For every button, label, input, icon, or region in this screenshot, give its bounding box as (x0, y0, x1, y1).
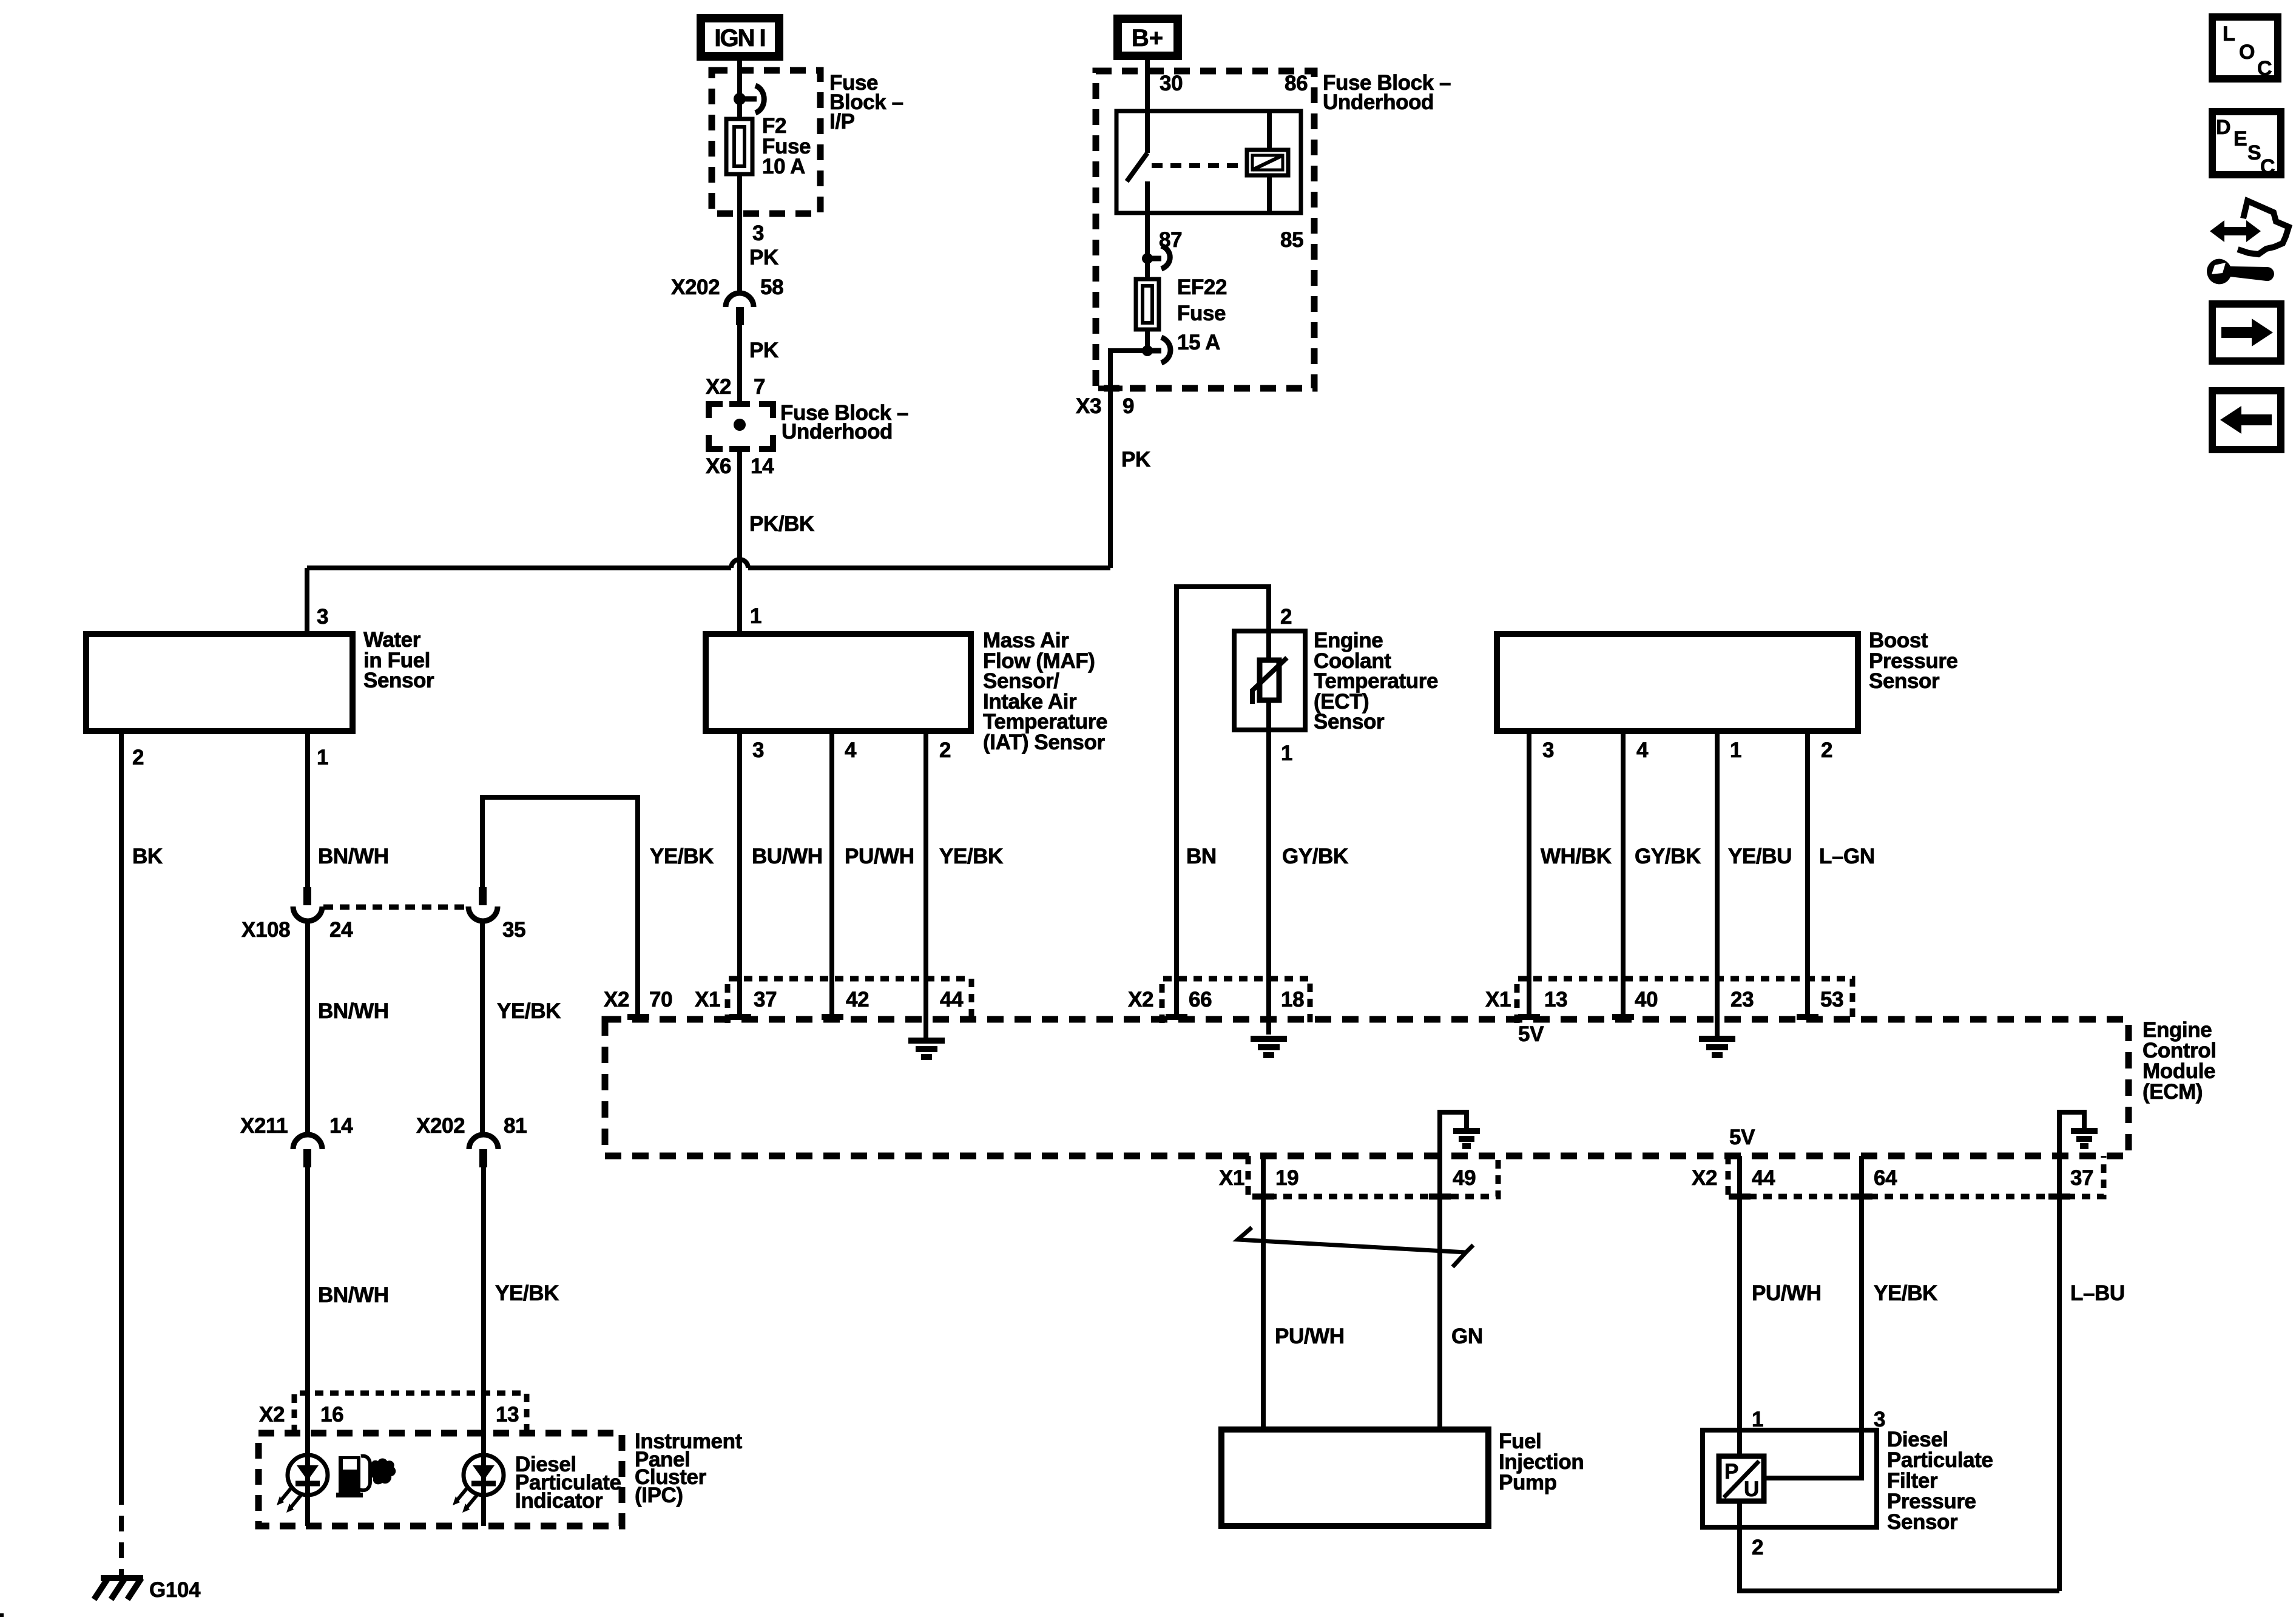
svg-text:P: P (1724, 1460, 1738, 1484)
svg-text:3: 3 (317, 605, 328, 629)
svg-text:BN: BN (1186, 845, 1217, 868)
wire MAF pin 4 PU/WH to ECM X1-42 (829, 731, 834, 1017)
indicator lamp water-in-fuel (288, 1455, 328, 1495)
svg-text:86: 86 (1285, 72, 1308, 95)
svg-text:Sensor: Sensor (1869, 669, 1940, 693)
MAF/IAT sensor box (706, 634, 971, 731)
svg-text:37: 37 (754, 988, 777, 1011)
svg-text:U: U (1744, 1477, 1759, 1501)
relay switch arm (1127, 153, 1147, 181)
wire WIF pin 2 BK down (119, 731, 124, 1489)
svg-text:3: 3 (1542, 738, 1554, 762)
pin terminal bar 66 (1166, 1014, 1187, 1020)
svg-text:24: 24 (329, 918, 353, 942)
wire X6-14 down to MAF pin 1, PK/BK (737, 449, 742, 634)
svg-text:40: 40 (1635, 988, 1658, 1011)
svg-text:Underhood: Underhood (1323, 90, 1434, 114)
svg-text:4: 4 (1636, 738, 1649, 762)
svg-text:1: 1 (750, 604, 761, 628)
wire WIF pin 1 BN/WH to X108-24 (305, 731, 310, 887)
svg-text:GN: GN (1451, 1325, 1483, 1348)
page artifact dot (0, 1613, 4, 1617)
svg-text:37: 37 (2070, 1166, 2093, 1190)
wire ECM X2-66 BN feed to ECT pin 2 (1177, 587, 1269, 1017)
wire ECM X2-37 L-BU to DPF sensor pin 2 with internal ground (2059, 1112, 2084, 1591)
svg-text:BN/WH: BN/WH (318, 999, 389, 1023)
svg-text:(IPC): (IPC) (635, 1484, 683, 1507)
svg-text:Sensor: Sensor (1314, 710, 1385, 734)
connector X1 of ECM bottom (pins 19,49) (1248, 1156, 1498, 1197)
svg-text:Sensor: Sensor (1887, 1510, 1958, 1534)
svg-text:1: 1 (1281, 741, 1292, 765)
connector X2 of ECM bottom (pins 44,64,37) (1728, 1156, 2104, 1197)
svg-text:YE/BU: YE/BU (1728, 845, 1792, 868)
svg-text:13: 13 (496, 1403, 519, 1426)
svg-text:44: 44 (1752, 1166, 1775, 1190)
svg-text:9: 9 (1123, 394, 1134, 418)
wire boost pin 1 YE/BU to ECM X1-23 ground (1715, 731, 1720, 1038)
pressure transducer P/U symbol (1719, 1456, 1764, 1501)
ground inside ECM below pin 44 (908, 1041, 945, 1057)
wire ECM X1-19 PU/WH to fuel injection pump (1261, 1156, 1266, 1430)
fuel pump icon (336, 1456, 363, 1497)
svg-text:1: 1 (317, 746, 328, 769)
wire relay pin 87 to fuse EF22 (1145, 181, 1150, 279)
svg-text:Fuse: Fuse (1177, 302, 1226, 325)
thermistor symbol in ECT (1266, 631, 1271, 660)
twisted pair marker across pump wires (1238, 1227, 1473, 1267)
svg-text:42: 42 (846, 988, 869, 1011)
svg-text:PU/WH: PU/WH (845, 845, 914, 868)
relay actuation dashed line (1152, 163, 1246, 168)
connector X2 of IPC (pins 16, 13) (294, 1393, 527, 1433)
icon LOC box (2212, 17, 2278, 79)
indicator lamp diesel particulate (464, 1455, 504, 1495)
svg-text:18: 18 (1281, 988, 1304, 1011)
node EF22 top junction (1142, 253, 1153, 264)
svg-text:Indicator: Indicator (515, 1489, 603, 1513)
svg-text:D: D (2216, 116, 2231, 139)
svg-text:X202: X202 (416, 1114, 465, 1138)
svg-text:85: 85 (1280, 228, 1303, 252)
svg-text:X2: X2 (1692, 1166, 1717, 1190)
IPC dashed box (258, 1433, 622, 1526)
svg-text:PK: PK (1121, 448, 1150, 471)
wire MAF pin 2 YE/BK to ECM X1-44 ground (923, 731, 928, 1038)
wire connector 35 up and over to ECM X2-70, YE/BK (482, 797, 638, 1017)
wire X211 down to IPC X2-16, BN/WH (305, 1167, 310, 1526)
wire boost pin 2 L-GN to ECM X1-53 (1805, 731, 1810, 1017)
svg-text:PU/WH: PU/WH (1275, 1325, 1345, 1348)
fuse F2 10A body (726, 119, 752, 174)
svg-text:YE/BK: YE/BK (1874, 1281, 1937, 1305)
wire X108-24 down to X211-14, BN/WH (305, 920, 310, 1136)
wire X202-81 down to IPC X2-13, YE/BK (481, 1167, 486, 1526)
svg-text:23: 23 (1730, 988, 1754, 1011)
wire to X3 pin 9 and down to rail, PK (1110, 351, 1147, 568)
wire boost pin 3 WH/BK to ECM X1-13 (1527, 731, 1531, 1017)
svg-text:(ECM): (ECM) (2142, 1080, 2203, 1104)
svg-text:BK: BK (132, 845, 163, 868)
fuse clip top of F2 (745, 86, 764, 113)
svg-text:I/P: I/P (829, 110, 855, 133)
svg-text:(IAT) Sensor: (IAT) Sensor (983, 731, 1105, 754)
svg-text:L–GN: L–GN (1819, 845, 1875, 868)
svg-text:BN/WH: BN/WH (318, 1283, 389, 1307)
svg-text:44: 44 (940, 988, 964, 1011)
connector X1 of ECM (pins 37,42,44) (728, 979, 971, 1023)
svg-text:YE/BK: YE/BK (650, 845, 714, 868)
svg-text:5V: 5V (1518, 1022, 1544, 1046)
svg-text:X1: X1 (1219, 1166, 1244, 1190)
ground inside ECM below pin 18 (1251, 1039, 1287, 1055)
wire EF22 bottom to X3-9 branch (1145, 329, 1150, 351)
svg-text:35: 35 (502, 918, 525, 942)
connector X2 of ECM (pins 66,18) (1162, 979, 1310, 1023)
svg-text:15 A: 15 A (1177, 331, 1220, 354)
svg-text:YE/BK: YE/BK (497, 999, 561, 1023)
svg-text:E: E (2234, 127, 2247, 150)
svg-text:X108: X108 (241, 918, 290, 942)
svg-text:PK: PK (749, 246, 778, 269)
wire IGN I to fuse F2 (737, 59, 742, 119)
svg-text:GY/BK: GY/BK (1635, 845, 1701, 868)
svg-text:7: 7 (754, 375, 765, 399)
svg-text:C: C (2257, 57, 2272, 80)
svg-text:B+: B+ (1132, 25, 1163, 52)
svg-text:X2: X2 (706, 375, 731, 399)
water in fuel sensor box (86, 634, 353, 731)
wire X202-81 down from connector 35 (480, 920, 485, 1136)
wire BK hidden section (dashed) (119, 1489, 124, 1576)
wire ECM X2-44 PU/WH to DPF sensor pin 1 (1737, 1156, 1742, 1456)
svg-text:PK/BK: PK/BK (749, 512, 814, 536)
relay coil (1247, 150, 1288, 175)
icon wiring repair (arrow + outline + wrench) (2221, 227, 2250, 235)
svg-text:O: O (2239, 41, 2255, 64)
wire B+ to relay pin 30 (1145, 56, 1150, 153)
svg-text:3: 3 (752, 738, 764, 762)
svg-text:19: 19 (1275, 1166, 1298, 1190)
fuse block underhood pass-through box (corner marks) (709, 404, 773, 449)
svg-text:14: 14 (751, 454, 774, 478)
ECT sensor box (1234, 631, 1305, 730)
svg-text:YE/BK: YE/BK (939, 845, 1003, 868)
svg-text:X202: X202 (671, 275, 720, 299)
svg-text:X2: X2 (604, 988, 629, 1011)
svg-text:70: 70 (649, 988, 672, 1011)
svg-text:IGN I: IGN I (714, 25, 765, 52)
diesel particulate filter pressure sensor box (1703, 1430, 1877, 1527)
svg-text:X1: X1 (1485, 988, 1511, 1011)
svg-text:BU/WH: BU/WH (752, 845, 823, 868)
svg-text:EF22: EF22 (1177, 275, 1227, 299)
wire relay coil to pins 86/85 (1267, 111, 1272, 150)
svg-text:WH/BK: WH/BK (1541, 845, 1612, 868)
wire MAF pin 3 BU/WH to ECM X1-37 (737, 731, 742, 1017)
svg-text:14: 14 (329, 1114, 353, 1138)
svg-text:2: 2 (1280, 605, 1292, 629)
wire DPF pin 2 to ECM X2-37 (1740, 1501, 2059, 1591)
svg-text:2: 2 (939, 738, 951, 762)
svg-text:2: 2 (132, 746, 144, 769)
pin terminal bars 13 40 53 (1518, 1014, 1540, 1020)
icon back arrow box (2212, 391, 2281, 450)
svg-text:Sensor: Sensor (363, 669, 434, 692)
wire ECT pin 1 GY/BK to ECM X2-18 (1266, 700, 1271, 1035)
wire rail drop to WIF pin 3 (305, 568, 309, 634)
svg-text:X2: X2 (1128, 988, 1153, 1011)
wire X202 to X2-7, PK (737, 325, 742, 404)
svg-text:X6: X6 (706, 454, 731, 478)
connector X108 body dashed link (323, 905, 467, 910)
icon forward arrow box (2212, 304, 2281, 361)
svg-text:G104: G104 (149, 1578, 201, 1602)
svg-text:X2: X2 (259, 1403, 285, 1426)
fuse block underhood dashed box (1096, 71, 1314, 388)
power feed box IGN I (701, 18, 779, 56)
engine control module dashed box (605, 1019, 2129, 1156)
relay box (1116, 111, 1301, 213)
svg-text:5V: 5V (1729, 1126, 1755, 1149)
svg-text:PK: PK (749, 339, 778, 362)
ground inside ECM at pin 37 (2071, 1131, 2098, 1146)
pin terminal bars 37 42 (729, 1014, 751, 1020)
svg-text:64: 64 (1874, 1166, 1897, 1190)
node EF22 bottom junction (1142, 345, 1153, 356)
svg-text:X3: X3 (1076, 394, 1101, 418)
inline connector X108 pin 35 (479, 887, 487, 905)
svg-text:Pump: Pump (1499, 1471, 1557, 1494)
fuel injection pump box (1221, 1430, 1488, 1526)
svg-text:4: 4 (845, 738, 857, 762)
svg-text:53: 53 (1820, 988, 1843, 1011)
svg-text:49: 49 (1453, 1166, 1476, 1190)
svg-text:L–BU: L–BU (2070, 1281, 2125, 1305)
node fuse F2 top junction (734, 93, 746, 105)
svg-text:BN/WH: BN/WH (318, 845, 389, 868)
fuse clip bottom of EF22 (1152, 337, 1170, 363)
wire ECM X2-64 YE/BK to DPF sensor pin 3 (1764, 1156, 1862, 1478)
wire hop over IGN wire (731, 559, 748, 568)
power feed box B+ (1118, 19, 1178, 56)
fuse block I/P dashed box (712, 70, 820, 214)
svg-text:PU/WH: PU/WH (1752, 1281, 1822, 1305)
svg-text:S: S (2247, 141, 2261, 164)
boost pressure sensor box (1497, 634, 1858, 731)
svg-text:81: 81 (504, 1114, 527, 1138)
svg-text:13: 13 (1544, 988, 1567, 1011)
ground inside ECM below pin 23 (1699, 1039, 1735, 1055)
icon DESC box (2212, 112, 2281, 175)
fuse EF22 15A body (1136, 279, 1159, 329)
svg-text:2: 2 (1821, 738, 1832, 762)
wire boost pin 4 GY/BK to ECM X1-40 (1621, 731, 1626, 1017)
svg-text:3: 3 (752, 221, 764, 245)
svg-text:1: 1 (1730, 738, 1741, 762)
wire ECM X1-49 GN to fuel injection pump with internal ground (1440, 1112, 1467, 1430)
svg-text:C: C (2260, 155, 2275, 178)
svg-text:GY/BK: GY/BK (1282, 845, 1348, 868)
connector X1 of ECM (pins 13,40,23,53) (1517, 979, 1852, 1023)
wire F2 to X202 connector, pin 3, PK (737, 174, 742, 294)
svg-text:L: L (2223, 22, 2235, 46)
wire horizontal supply rail WIF to B+ branch (307, 565, 731, 570)
svg-text:16: 16 (320, 1403, 343, 1426)
ground G104 (94, 1578, 143, 1599)
svg-text:X1: X1 (695, 988, 720, 1011)
node junction dot in fuse block underhood (734, 419, 746, 431)
svg-text:2: 2 (1752, 1536, 1763, 1559)
svg-text:58: 58 (760, 275, 783, 299)
fuse clip top of EF22 (1152, 246, 1170, 269)
inline connector X108 pin 24 (303, 887, 311, 905)
svg-text:30: 30 (1160, 72, 1183, 95)
ground inside ECM at pin 49 (1453, 1131, 1480, 1146)
svg-text:Underhood: Underhood (782, 420, 893, 444)
svg-text:10 A: 10 A (762, 155, 805, 178)
svg-text:X211: X211 (240, 1114, 288, 1138)
svg-text:YE/BK: YE/BK (495, 1281, 559, 1305)
svg-text:66: 66 (1189, 988, 1212, 1011)
